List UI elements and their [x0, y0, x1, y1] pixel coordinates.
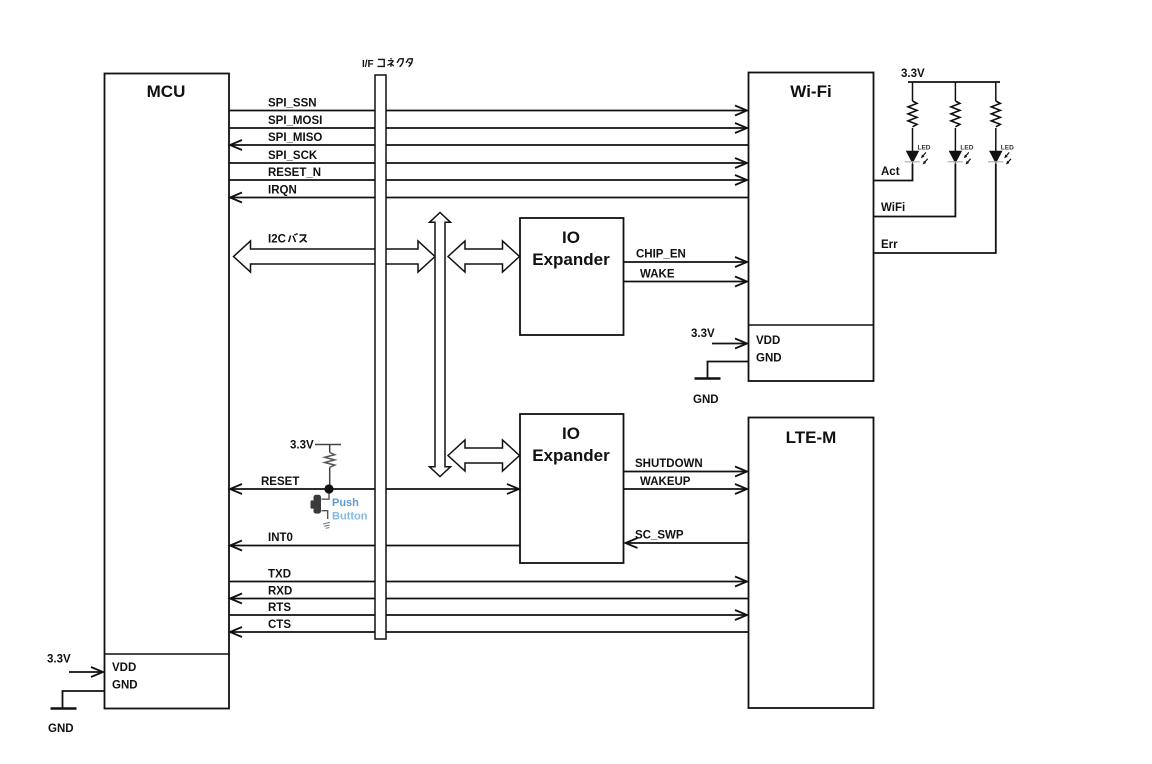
- resistor R4 (pull-up): [325, 453, 335, 468]
- svg-text:SHUTDOWN: SHUTDOWN: [635, 458, 703, 470]
- wire LED3 to Err: [874, 164, 996, 254]
- svg-text:GND: GND: [756, 353, 782, 365]
- svg-text:RTS: RTS: [268, 602, 291, 614]
- svg-text:VDD: VDD: [756, 335, 780, 347]
- wire R1 to LED1: [912, 128, 914, 152]
- svg-text:LTE-M: LTE-M: [786, 428, 837, 447]
- wire SPI_MOSI: [229, 115, 747, 133]
- wire SC_SWP: [626, 530, 749, 549]
- wire R3 to LED3: [995, 128, 997, 152]
- svg-text:RESET_N: RESET_N: [268, 167, 321, 179]
- svg-text:TXD: TXD: [268, 569, 291, 581]
- wire TXD: [229, 569, 747, 587]
- node RESET junction: [324, 484, 333, 493]
- svg-text:Button: Button: [332, 511, 368, 523]
- svg-text:IO: IO: [562, 228, 580, 247]
- svg-text:Expander: Expander: [532, 250, 610, 269]
- svg-text:SPI_MISO: SPI_MISO: [268, 132, 322, 144]
- svg-text:MCU: MCU: [147, 82, 186, 101]
- svg-text:3.3V: 3.3V: [47, 654, 71, 666]
- wire LED branch 3: [995, 82, 997, 101]
- label katakana NE (I/F connector): [387, 58, 393, 67]
- push button SW1: [311, 494, 368, 523]
- resistor R2: [951, 101, 960, 127]
- wire LED branch 2: [954, 82, 956, 101]
- wire LED2 to WiFi: [874, 164, 956, 217]
- svg-text:I/F: I/F: [362, 59, 374, 70]
- ground (Wi-Fi GND): [693, 362, 748, 407]
- svg-text:SPI_MOSI: SPI_MOSI: [268, 115, 322, 127]
- connector bar I/F: [362, 59, 386, 639]
- power 3.3V (reset pull-up): [290, 440, 341, 453]
- resistor R3: [991, 101, 1000, 127]
- svg-text:Err: Err: [881, 239, 898, 251]
- wire RESET_N: [229, 167, 747, 185]
- svg-text:SPI_SCK: SPI_SCK: [268, 150, 318, 162]
- wire RXD: [230, 586, 748, 604]
- label katakana KU (I/F connector): [397, 59, 403, 67]
- ground (MCU GND): [48, 691, 104, 735]
- svg-text:WiFi: WiFi: [881, 202, 905, 214]
- svg-text:RESET: RESET: [261, 476, 299, 488]
- power rail 3.3V (LED supply): [901, 68, 1000, 82]
- svg-text:GND: GND: [48, 723, 74, 735]
- svg-text:WAKEUP: WAKEUP: [640, 476, 691, 488]
- svg-text:IRQN: IRQN: [268, 185, 297, 197]
- block MCU: [105, 74, 230, 709]
- bus arrow I2C (MCU to connector): [234, 234, 436, 273]
- svg-text:Push: Push: [332, 497, 359, 509]
- svg-text:LED: LED: [918, 145, 931, 152]
- wire SHUTDOWN: [624, 458, 748, 477]
- ground (push button): [323, 522, 330, 528]
- wire CHIP_EN: [624, 249, 748, 268]
- svg-text:IO: IO: [562, 424, 580, 443]
- svg-text:Expander: Expander: [532, 446, 610, 465]
- wire WAKE: [624, 269, 748, 287]
- svg-text:3.3V: 3.3V: [290, 440, 314, 452]
- bus arrow vertical (connector riser): [430, 213, 451, 477]
- wire R2 to LED2: [954, 128, 956, 152]
- svg-text:WAKE: WAKE: [640, 269, 675, 281]
- label katakana SU (I2C bus): [300, 235, 307, 242]
- svg-text:RXD: RXD: [268, 586, 292, 598]
- block Wi-Fi: [749, 73, 874, 382]
- block IO Expander U2: [520, 414, 624, 563]
- svg-text:CTS: CTS: [268, 619, 291, 631]
- svg-text:CHIP_EN: CHIP_EN: [636, 249, 686, 261]
- svg-text:GND: GND: [693, 394, 719, 406]
- LED D3: [988, 145, 1014, 165]
- wire SPI_MISO: [230, 132, 748, 150]
- wire SPI_SSN: [229, 98, 747, 116]
- svg-text:Wi-Fi: Wi-Fi: [790, 82, 831, 101]
- svg-text:SPI_SSN: SPI_SSN: [268, 98, 317, 110]
- wire WAKEUP: [624, 476, 748, 494]
- bus arrow I2C (connector to IO Expander U1): [448, 241, 520, 272]
- wire LED branch 1: [912, 82, 914, 101]
- label katakana TA (I/F connector): [406, 59, 412, 67]
- svg-text:SC_SWP: SC_SWP: [635, 530, 684, 542]
- wire INT0: [230, 532, 520, 551]
- wire SPI_SCK: [229, 150, 747, 168]
- svg-text:INT0: INT0: [268, 532, 293, 544]
- wire RESET: [230, 476, 519, 494]
- label katakana BA (I2C bus): [289, 233, 298, 242]
- LED D2: [948, 145, 974, 165]
- block LTE-M: [749, 418, 874, 709]
- bus arrow I2C (connector to IO Expander U2): [448, 440, 520, 471]
- svg-text:Act: Act: [881, 166, 900, 178]
- wire RTS: [229, 602, 747, 620]
- svg-text:3.3V: 3.3V: [691, 328, 715, 340]
- svg-text:LED: LED: [960, 145, 973, 152]
- power 3.3V (MCU VDD): [47, 654, 103, 678]
- label katakana KO (I/F connector): [378, 59, 385, 66]
- svg-text:3.3V: 3.3V: [901, 68, 925, 80]
- wire LED1 to Act: [874, 164, 913, 181]
- svg-text:I2C: I2C: [268, 234, 286, 246]
- wire R4 to RESET node: [329, 467, 331, 489]
- power 3.3V (Wi-Fi VDD): [691, 328, 747, 349]
- wire IRQN: [230, 185, 748, 203]
- svg-text:GND: GND: [112, 680, 138, 692]
- block IO Expander U1: [520, 218, 624, 335]
- resistor R1: [908, 101, 917, 127]
- LED D1: [905, 145, 931, 165]
- svg-text:LED: LED: [1001, 145, 1014, 152]
- svg-text:VDD: VDD: [112, 662, 136, 674]
- wire CTS: [230, 619, 748, 637]
